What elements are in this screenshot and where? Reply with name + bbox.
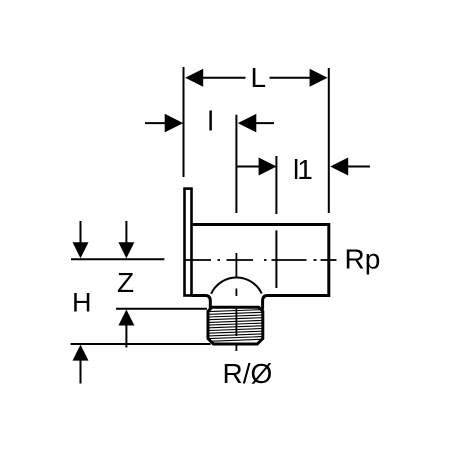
horizontal centerline (dash-dot) <box>184 259 337 261</box>
dimension l arrowhead right (points left at ext line) <box>238 114 256 133</box>
internal bore line <box>275 230 277 288</box>
dimension l1 tail right <box>348 166 370 168</box>
vertical centerline of outlet (dash-dot) <box>235 253 237 351</box>
dimension L line right segment <box>270 77 311 79</box>
dimension L arrowhead right <box>310 69 328 87</box>
H top arrow (down) shaft <box>80 221 82 244</box>
dimension l1 arrowhead left (points right) <box>259 158 277 176</box>
dimension l arrowhead left (points right at ext line) <box>165 114 184 133</box>
Z bottom arrowhead (up) <box>118 310 134 326</box>
svg-text:Z: Z <box>117 267 134 298</box>
reference line at centerline level (top of H and Z) <box>71 258 164 260</box>
dimension l tail left <box>145 122 166 124</box>
body bottom edge left of outlet <box>192 296 211 310</box>
Z bottom line <box>116 308 207 310</box>
extension line right (x=328.8) <box>328 68 330 213</box>
dimension l1 arrowhead right (points left) <box>330 158 348 176</box>
thread hatch lines <box>209 310 262 342</box>
threaded outlet block <box>208 307 263 344</box>
svg-text:L: L <box>251 62 267 93</box>
extension line for l1 (x=276.4) <box>275 156 277 214</box>
dome arc of union <box>211 278 262 294</box>
Z top arrow (down) shaft <box>125 221 127 244</box>
extension line for l (x=236.4) <box>235 115 237 213</box>
svg-text:H: H <box>72 288 92 318</box>
svg-text:Rp: Rp <box>345 244 381 275</box>
dimension l tail right <box>256 122 275 124</box>
H bottom line <box>71 343 211 345</box>
extension line left (x=184.5) <box>183 67 185 177</box>
svg-text:R/Ø: R/Ø <box>223 358 273 389</box>
H top arrowhead (down) <box>73 242 89 258</box>
flange plate <box>185 189 192 296</box>
H bottom arrowhead (up) <box>73 345 89 361</box>
Z top arrowhead (down) <box>118 242 134 258</box>
Z bottom arrow shaft <box>125 325 127 348</box>
svg-text:l: l <box>208 106 214 137</box>
dimension L arrowhead left <box>185 69 203 87</box>
body outline <box>192 225 329 310</box>
svg-text:l1: l1 <box>293 154 312 185</box>
dimension l1 tail left <box>237 166 259 168</box>
dimension L line left segment <box>203 77 246 79</box>
H bottom arrow shaft <box>80 360 82 384</box>
